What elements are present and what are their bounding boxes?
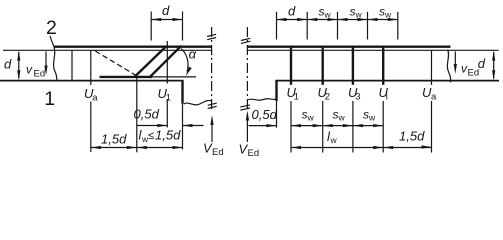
slab soffit line — [0, 80, 181, 82]
bent-up bar 1 — [134, 46, 167, 77]
top dimension d (left diagram) — [150, 12, 152, 41]
svg-text:2: 2 — [325, 92, 330, 103]
break mark top — [207, 34, 216, 36]
svg-text:w: w — [307, 113, 315, 123]
svg-text:w: w — [324, 10, 332, 20]
svg-text:Ed: Ed — [34, 69, 46, 80]
column centerline — [211, 27, 213, 111]
v_Ed arrow left — [45, 52, 47, 70]
slab break (tear) line left — [54, 47, 57, 82]
column face extension line — [182, 104, 184, 150]
leader from label 2 — [50, 36, 54, 46]
dimension 0,5d right — [249, 125, 277, 127]
top reinforcement bar 2 — [54, 46, 212, 48]
svg-text:d: d — [162, 3, 170, 18]
slab top line — [3, 49, 212, 51]
break mark top right — [241, 38, 251, 40]
svg-text:Ed: Ed — [248, 148, 260, 159]
node line (inner perimeter) — [71, 50, 73, 81]
svg-text:a: a — [431, 92, 437, 103]
column tear line right — [247, 99, 276, 101]
bottom dimension line — [91, 147, 183, 149]
break mark bottom — [208, 103, 217, 105]
column face right — [275, 80, 277, 101]
svg-text:1,5d: 1,5d — [399, 129, 425, 144]
dimension d right (vertical) — [493, 52, 495, 79]
svg-text:1: 1 — [44, 88, 55, 110]
svg-text:i: i — [386, 92, 388, 103]
perimeter line U_1 — [166, 41, 168, 84]
dimension 0,5d (left diagram) — [137, 125, 168, 127]
stirrup 2 — [322, 47, 324, 85]
svg-text:1,5d: 1,5d — [101, 132, 127, 147]
top dimension extension lines right — [276, 12, 278, 40]
svg-text:3: 3 — [355, 92, 360, 103]
V_Ed reaction arrow right — [246, 115, 248, 143]
svg-text:w: w — [384, 10, 392, 20]
svg-text:1: 1 — [166, 93, 171, 104]
dimension 1,5d right — [383, 147, 431, 149]
svg-text:1,5d: 1,5d — [155, 128, 181, 143]
svg-text:d: d — [478, 56, 486, 71]
svg-text:Ed: Ed — [212, 147, 224, 158]
column centerline right — [246, 27, 248, 112]
bottom reinforcement bar — [100, 76, 153, 78]
dashed crack line — [95, 51, 137, 76]
column tear line — [184, 100, 212, 104]
svg-text:1: 1 — [294, 92, 299, 103]
stirrup 4 — [382, 47, 384, 85]
V_Ed reaction arrow left — [211, 119, 213, 142]
bent-up bar 2 — [150, 46, 182, 78]
svg-text:w: w — [338, 113, 346, 123]
top reinforcement bar right — [247, 46, 451, 48]
stirrup 1 — [290, 47, 292, 85]
svg-text:w: w — [368, 113, 376, 123]
perimeter line U_a — [90, 50, 92, 85]
svg-text:w: w — [330, 135, 338, 145]
dimension l_w right — [291, 147, 383, 149]
angle reference line — [152, 76, 196, 78]
dimension s_w row — [291, 125, 383, 127]
svg-text:w: w — [355, 10, 363, 20]
angle alpha arc — [181, 49, 188, 72]
break mark bottom right — [240, 105, 250, 107]
dimension d left (vertical) — [18, 52, 20, 79]
svg-text:0,5d: 0,5d — [252, 107, 278, 122]
slab soffit right — [277, 80, 500, 82]
svg-text:α: α — [189, 46, 197, 61]
column face left — [181, 80, 183, 104]
v_Ed arrow right — [454, 52, 456, 69]
top dimension line right — [277, 19, 398, 21]
svg-text:0,5d: 0,5d — [134, 107, 160, 122]
perimeter line U_a right — [431, 50, 433, 85]
svg-text:2: 2 — [46, 17, 57, 39]
svg-text:d: d — [288, 4, 296, 19]
svg-text:v: v — [26, 63, 33, 77]
slab tear line right — [447, 50, 450, 83]
extension line at first bend — [136, 77, 138, 152]
svg-text:d: d — [4, 56, 12, 71]
svg-text:≤: ≤ — [148, 130, 154, 142]
stirrup 3 — [352, 47, 354, 85]
stirrup extension lines below labels — [290, 101, 292, 153]
svg-text:a: a — [92, 93, 98, 104]
column face extension right — [276, 101, 278, 128]
slab top line right — [247, 49, 499, 51]
